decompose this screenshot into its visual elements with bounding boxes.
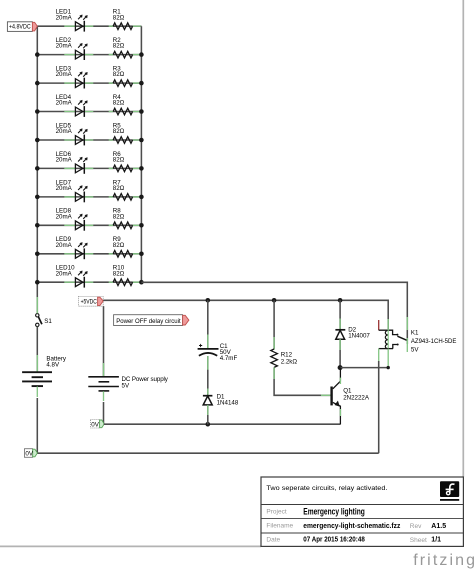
wire row10 to relay common <box>141 282 407 344</box>
svg-text:1N4007: 1N4007 <box>348 333 370 340</box>
title block <box>261 477 463 546</box>
LED LED9 <box>75 242 87 259</box>
svg-text:82Ω: 82Ω <box>113 213 125 220</box>
wire row 7 (LED7/R7 branch) <box>37 196 141 198</box>
wire relay return (vertical up to coil) <box>378 361 380 453</box>
DC power supply 5V <box>88 377 119 391</box>
svg-text:4.8V: 4.8V <box>46 361 60 368</box>
pin lead D2 bottom (green) <box>339 339 341 350</box>
svg-text:20mA: 20mA <box>56 43 73 50</box>
relay coil <box>385 330 388 348</box>
node D1 on 0V rail <box>206 422 211 427</box>
pin leads row 7 (green) <box>64 196 141 198</box>
pin leads row 4 (green) <box>64 111 141 113</box>
svg-text:Filename: Filename <box>266 523 293 530</box>
page border bottom <box>0 545 261 547</box>
svg-text:82Ω: 82Ω <box>113 270 125 277</box>
svg-text:0V: 0V <box>91 421 99 428</box>
pin lead relay coil- (green) <box>378 349 380 361</box>
net label 0V (battery) <box>25 449 38 458</box>
fritzing icon <box>440 481 459 497</box>
LED LED4 <box>75 100 87 117</box>
node right bus row 9 <box>139 252 144 257</box>
right bus (R outputs) <box>140 26 142 282</box>
node right bus row 10 <box>139 280 144 285</box>
pin leads row 6 (green) <box>64 167 141 169</box>
node left bus row 8 <box>35 223 40 228</box>
resistor R2 <box>113 51 132 58</box>
wire row 6 (LED6/R6 branch) <box>37 167 141 169</box>
wire battery to 0V rail <box>37 398 378 453</box>
pin lead relay NO (green) <box>387 349 389 368</box>
wire row 5 (LED5/R5 branch) <box>37 139 141 141</box>
pin lead D1 bottom (green) <box>207 405 209 415</box>
LED LED3 <box>75 72 87 89</box>
+5VDC rail <box>103 300 388 330</box>
svg-text:5V: 5V <box>122 382 130 389</box>
left bus (from +4.8VDC down to S1) <box>36 26 38 313</box>
LED LED5 <box>75 129 87 146</box>
svg-text:82Ω: 82Ω <box>113 242 125 249</box>
svg-text:Two seperate circuits, relay a: Two seperate circuits, relay activated. <box>266 485 387 492</box>
svg-text:Q1: Q1 <box>343 387 352 394</box>
svg-text:Emergency lighting: Emergency lighting <box>303 507 365 518</box>
svg-text:2.2kΩ: 2.2kΩ <box>281 358 298 365</box>
svg-text:1/1: 1/1 <box>431 537 441 544</box>
node left bus row 10 <box>35 280 40 285</box>
LED LED2 <box>75 43 87 60</box>
resistor R5 <box>113 137 132 144</box>
wire row 4 (LED4/R4 branch) <box>37 111 141 113</box>
wire D2 to node <box>339 339 341 367</box>
svg-text:4.7mF: 4.7mF <box>220 355 238 362</box>
resistor R6 <box>113 165 132 172</box>
node right bus row 5 <box>139 138 144 143</box>
svg-text:fritzing: fritzing <box>413 552 474 569</box>
relay switch arm <box>397 336 406 340</box>
node left bus row 7 <box>35 195 40 200</box>
svg-text:82Ω: 82Ω <box>113 185 125 192</box>
relay pin unconnected (red) <box>378 320 380 330</box>
node C1 on +5VDC rail <box>206 298 211 303</box>
resistor R8 <box>113 222 132 229</box>
capacitor C1 <box>198 344 219 356</box>
svg-text:20mA: 20mA <box>56 128 73 135</box>
svg-text:20mA: 20mA <box>56 100 73 107</box>
svg-text:20mA: 20mA <box>56 14 73 21</box>
node D2/Q1/coil junction <box>338 365 343 370</box>
svg-text:0V: 0V <box>25 451 33 458</box>
pin lead battery bottom (green) <box>36 387 38 398</box>
svg-text:82Ω: 82Ω <box>113 100 125 107</box>
diode D2 1N4007 <box>335 330 345 339</box>
node right bus row 2 <box>139 52 144 57</box>
resistor R1 <box>113 23 132 30</box>
svg-text:82Ω: 82Ω <box>113 43 125 50</box>
node left bus row 3 <box>35 81 40 86</box>
wire +5VDC rail to D2 <box>339 300 341 329</box>
svg-text:Rev: Rev <box>410 523 422 530</box>
wire node to relay <box>340 367 388 369</box>
svg-text:20mA: 20mA <box>56 71 73 78</box>
diode D1 1N4148 <box>203 396 213 405</box>
svg-text:Sheet: Sheet <box>410 537 427 544</box>
wire row 2 (LED2/R2 branch) <box>37 54 141 56</box>
node left bus row 2 <box>35 52 40 57</box>
svg-text:+4.8VDC: +4.8VDC <box>9 24 31 31</box>
svg-text:A1.5: A1.5 <box>431 523 446 530</box>
svg-text:AZ943-1CH-5DE: AZ943-1CH-5DE <box>411 338 457 345</box>
page border right <box>462 0 464 477</box>
LED LED6 <box>75 157 87 174</box>
node left bus row 5 <box>35 138 40 143</box>
pin leads row 2 (green) <box>64 54 141 56</box>
node left bus row 6 <box>35 166 40 171</box>
wire row 1 (LED1/R1 branch) <box>37 25 141 27</box>
relay coil bottom lead <box>379 348 393 350</box>
switch S1 <box>36 314 53 327</box>
node R12 on +5VDC rail <box>272 298 277 303</box>
resistor R4 <box>113 108 132 115</box>
pin leads Q1 collector/emitter (green) <box>339 378 341 416</box>
battery BT1 4.8V <box>22 372 52 386</box>
LED LED8 <box>75 214 87 231</box>
relay K1 AZ943-1CH-5DE <box>379 320 407 349</box>
svg-text:82Ω: 82Ω <box>113 157 125 164</box>
relay NO contact <box>393 345 398 349</box>
wire R12 to Q1 base <box>274 367 330 395</box>
pin leads C1 (green) <box>207 335 209 349</box>
net label 0V (DC supply) <box>90 419 104 428</box>
svg-text:emergency-light-schematic.fzz: emergency-light-schematic.fzz <box>303 523 400 530</box>
wire D1 to 0V rail <box>207 405 209 425</box>
net label Power OFF delay circuit <box>114 315 189 326</box>
pin leads row 10 (green) <box>64 281 141 283</box>
wire row 8 (LED8/R8 branch) <box>37 224 141 226</box>
resistor R3 <box>113 80 132 87</box>
wire +5VDC rail to C1 <box>207 300 209 348</box>
pin lead D2 top (green) <box>339 319 341 330</box>
svg-text:20mA: 20mA <box>56 213 73 220</box>
pin lead R12 bottom (green) <box>273 367 275 379</box>
pin leads row 5 (green) <box>64 139 141 141</box>
net label +5VDC <box>79 297 104 307</box>
svg-text:20mA: 20mA <box>56 185 73 192</box>
LED LED7 <box>75 186 87 203</box>
wire row 9 (LED9/R9 branch) <box>37 253 141 255</box>
pin lead DC supply bottom (green) <box>103 391 105 401</box>
wire C1 to D1 <box>207 356 209 395</box>
node right bus row 3 <box>139 81 144 86</box>
svg-text:20mA: 20mA <box>56 157 73 164</box>
pin lead relay common (green) <box>406 317 408 352</box>
node D2 on +5VDC rail <box>338 298 343 303</box>
node NO/wire junction <box>387 366 390 369</box>
pin leads D1 (green) <box>207 356 209 396</box>
svg-text:Date: Date <box>266 537 280 544</box>
svg-text:20mA: 20mA <box>56 270 73 277</box>
wire row 3 (LED3/R3 branch) <box>37 82 141 84</box>
pin lead DC supply top (green) <box>103 363 105 376</box>
0V rail <box>104 423 341 425</box>
pin lead relay coil+ (green) <box>387 319 389 330</box>
node right bus row 8 <box>139 223 144 228</box>
resistor R12 2.2k <box>271 349 278 367</box>
svg-text:5V: 5V <box>411 346 419 353</box>
pin lead battery top (green) <box>36 355 38 372</box>
svg-text:Power OFF delay circuit: Power OFF delay circuit <box>116 318 181 325</box>
wire +5VDC label to DC supply <box>103 306 105 376</box>
net label +4.8VDC <box>7 22 37 32</box>
pin leads S1 (green) <box>36 297 38 340</box>
wire row 10 (LED10/R10 branch) <box>37 281 141 283</box>
pin leads row 3 (green) <box>64 82 141 84</box>
svg-text:K1: K1 <box>411 329 419 336</box>
pin leads row 8 (green) <box>64 224 141 226</box>
pin leads row 1 (green) <box>64 25 141 27</box>
LED LED1 <box>75 15 87 32</box>
svg-text:1N4148: 1N4148 <box>217 400 239 407</box>
LED LED10 <box>75 271 87 288</box>
svg-text:82Ω: 82Ω <box>113 14 125 21</box>
transistor Q1 2N2222A <box>330 368 340 425</box>
svg-text:82Ω: 82Ω <box>113 128 125 135</box>
svg-text:82Ω: 82Ω <box>113 71 125 78</box>
svg-text:2N2222A: 2N2222A <box>343 394 370 401</box>
resistor R10 <box>113 279 132 286</box>
svg-text:20mA: 20mA <box>56 242 73 249</box>
svg-text:S1: S1 <box>44 318 52 325</box>
node left bus row 9 <box>35 252 40 257</box>
resistor R7 <box>113 194 132 201</box>
svg-text:+5VDC: +5VDC <box>81 298 98 305</box>
pin leads row 9 (green) <box>64 253 141 255</box>
pin lead R12 top (green) <box>273 337 275 350</box>
relay coil top lead <box>379 330 398 334</box>
wire +5VDC rail to R12 <box>273 300 275 349</box>
pin lead Q1 base (green) <box>321 394 331 396</box>
node right bus row 6 <box>139 166 144 171</box>
resistor R9 <box>113 251 132 258</box>
node right bus row 4 <box>139 109 144 114</box>
svg-text:07 Apr 2015 16:20:48: 07 Apr 2015 16:20:48 <box>303 537 365 544</box>
node right bus row 7 <box>139 195 144 200</box>
wire S1 to battery <box>36 327 38 371</box>
node left bus row 4 <box>35 109 40 114</box>
wire DC supply to 0V rail <box>103 402 105 424</box>
svg-text:Project: Project <box>266 508 286 515</box>
